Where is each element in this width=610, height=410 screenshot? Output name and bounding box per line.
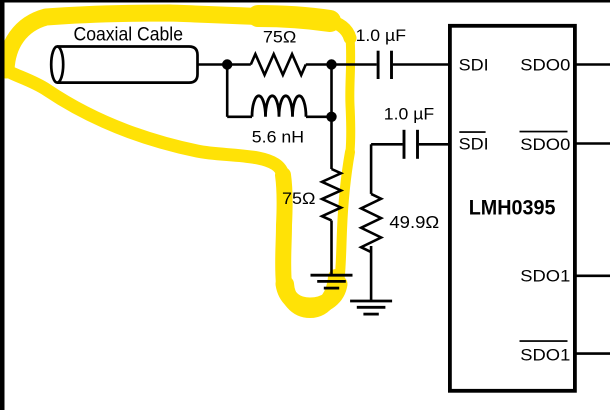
svg-text:49.9Ω: 49.9Ω xyxy=(389,212,439,232)
capacitor C2 1.0 uF xyxy=(404,130,418,159)
wire pin SDO0-bar xyxy=(575,142,610,145)
highlighter right arm upper xyxy=(345,38,355,152)
highlighter top band thick overdraw xyxy=(258,16,330,21)
svg-text:75Ω: 75Ω xyxy=(263,27,297,46)
ground GND1 xyxy=(311,275,353,288)
highlighter diagonal return band xyxy=(6,70,283,175)
highlighter right arm lower xyxy=(339,152,350,284)
left border bar xyxy=(0,0,5,410)
svg-text:1.0 µF: 1.0 µF xyxy=(356,26,406,45)
wire R1 to node B xyxy=(306,63,332,66)
wire C2 to SDI-bar pin xyxy=(419,143,450,146)
highlighter bottom turn overdraw xyxy=(286,277,336,310)
resistor R1 75 ohm horizontal xyxy=(251,54,306,75)
overline SDO1-bar xyxy=(520,340,568,342)
overline SDI-bar xyxy=(459,131,485,133)
resistor R3 49.9 ohm xyxy=(361,194,381,252)
node B junction dot xyxy=(326,59,336,69)
wire down to resistor R3 xyxy=(370,144,373,194)
wire node A to resistor R1 xyxy=(227,63,251,66)
top border line xyxy=(0,0,610,3)
wire L1 to node C xyxy=(306,116,332,119)
op-amp U1 LMH0395 IC box xyxy=(450,26,575,391)
capacitor C1 1.0 uF xyxy=(378,51,391,79)
coaxial cable end ellipse xyxy=(51,47,63,83)
svg-text:SDO1: SDO1 xyxy=(520,345,570,364)
svg-text:SDI: SDI xyxy=(459,134,489,153)
highlighter left arm xyxy=(283,175,285,284)
wire to inductor L1 xyxy=(227,116,252,119)
svg-text:SDO0: SDO0 xyxy=(520,135,570,154)
wire R3 to ground xyxy=(370,246,373,301)
wire node A down xyxy=(226,65,229,117)
node C junction dot xyxy=(326,112,336,122)
highlighter top-right corner xyxy=(326,20,350,38)
highlighter bottom U turn xyxy=(284,284,339,306)
svg-text:SDO0: SDO0 xyxy=(520,55,570,74)
wire cable to node A xyxy=(198,63,228,66)
svg-text:75Ω: 75Ω xyxy=(282,189,316,208)
coaxial cable body xyxy=(57,47,197,83)
svg-text:SDI: SDI xyxy=(459,55,489,74)
svg-text:1.0 µF: 1.0 µF xyxy=(384,104,434,123)
yellow highlighter loop: top band xyxy=(6,13,326,70)
ground GND2 xyxy=(350,301,392,314)
wire C1 to SDI pin xyxy=(393,63,450,66)
wire pin SDO1 xyxy=(575,274,610,277)
wire node B to capacitor C1 xyxy=(332,63,377,66)
overline SDO0-bar xyxy=(520,131,568,133)
svg-text:5.6 nH: 5.6 nH xyxy=(252,129,304,147)
node A junction dot xyxy=(222,59,232,69)
svg-text:SDO1: SDO1 xyxy=(520,267,570,286)
svg-text:Coaxial Cable: Coaxial Cable xyxy=(74,25,184,46)
wire pin SDO0 xyxy=(575,63,610,66)
svg-text:LMH0395: LMH0395 xyxy=(469,197,556,220)
inductor L1 5.6 nH xyxy=(252,96,306,117)
wire node B down to resistor R2 xyxy=(330,65,333,170)
wire R2 to ground xyxy=(330,221,333,276)
wire branch to capacitor C2 xyxy=(371,143,403,146)
wire pin SDO1-bar xyxy=(575,352,610,355)
resistor R2 75 ohm vertical xyxy=(322,169,341,220)
